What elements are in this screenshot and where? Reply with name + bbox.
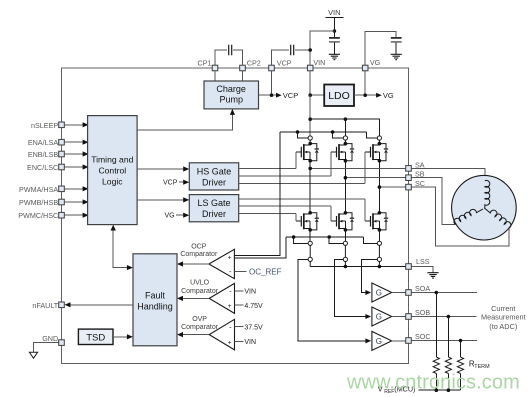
wire top rail (310, 119, 379, 136)
svg-text:PWMB/HSB: PWMB/HSB (19, 198, 58, 207)
terminal ENA/LSA (28, 138, 64, 147)
svg-text:VCP: VCP (283, 91, 298, 100)
node SB dot (344, 176, 348, 180)
arrow + label VCP (276, 91, 298, 100)
label VREF (MCU) (378, 384, 416, 395)
wire phase B vertical (344, 161, 346, 213)
wire ENA/LSA (64, 140, 88, 145)
svg-text:VG: VG (164, 213, 174, 220)
node dot on gate-bus B (331, 130, 335, 134)
wire VIN vertical into bridge (309, 95, 311, 136)
amplifier G1 (SOA) (365, 283, 405, 302)
wire VG cap to ground (395, 43, 397, 54)
wire HS gate A (239, 152, 296, 168)
wire LS gate B (239, 206, 331, 221)
terminal PWMC/HSC (18, 211, 64, 220)
capacitor VG (391, 38, 402, 42)
transistor LS-A (296, 211, 319, 232)
resistor RTERM C (457, 357, 463, 373)
wire VIN terminal to supply (310, 31, 334, 65)
node SC dot (378, 185, 382, 189)
amplifier G3 (SOC) (365, 331, 405, 350)
svg-text:PWMC/HSC: PWMC/HSC (18, 211, 58, 220)
svg-text:+: + (228, 255, 232, 262)
svg-text:4.75V: 4.75V (244, 303, 263, 310)
wire sense C to amp SOA (361, 259, 377, 292)
op-amp UVLO comparator (181, 280, 234, 314)
svg-text:Comparator: Comparator (180, 251, 218, 258)
wire TSD to fault (113, 334, 133, 339)
node dot VG (363, 93, 367, 97)
svg-text:SOA: SOA (415, 284, 430, 293)
svg-text:Fault: Fault (145, 291, 166, 301)
wire ENC/LSC (64, 164, 88, 169)
resistor RTERM B (445, 357, 451, 373)
wire SA (310, 167, 406, 169)
node dot sense-bus B (327, 235, 331, 239)
label VCP into HS driver (163, 180, 189, 187)
svg-text:(to ADC): (to ADC) (489, 322, 517, 331)
svg-text:Comparator: Comparator (181, 288, 219, 295)
node dot res B bottom (447, 388, 451, 392)
terminal SOB (406, 308, 431, 319)
svg-text:VCP: VCP (277, 59, 292, 68)
wire phase A vertical (309, 161, 311, 213)
svg-text:VIN: VIN (244, 288, 256, 295)
svg-text:VIN: VIN (244, 339, 256, 346)
svg-text:LSS: LSS (416, 257, 430, 266)
capacitor CP1-CP2 flying (229, 45, 232, 55)
svg-text:ENC/LSC: ENC/LSC (27, 163, 58, 172)
wire SC (379, 186, 405, 188)
capacitor VCP-VIN (291, 45, 294, 55)
svg-text:LDO: LDO (328, 90, 350, 102)
transistor HS-C (365, 142, 388, 163)
svg-text:VIN: VIN (313, 58, 325, 67)
svg-text:SOC: SOC (415, 332, 431, 341)
terminal nSLEEP (31, 121, 64, 130)
svg-text:VCP: VCP (163, 180, 178, 187)
wire VG terminal down (364, 71, 366, 95)
svg-text:VIN: VIN (328, 8, 340, 17)
svg-text:TSD: TSD (86, 332, 105, 343)
wire LSS to ground (411, 267, 433, 273)
pin circle HS B (343, 136, 347, 144)
wire UVLO 4.75V input (235, 303, 264, 310)
wire SC to motor (411, 187, 509, 246)
svg-text:nSLEEP: nSLEEP (31, 121, 58, 130)
pin circle LS B (343, 241, 347, 257)
node LSS dot B (344, 265, 348, 269)
svg-text:G: G (376, 337, 382, 346)
wire UVLO output to fault (177, 296, 209, 301)
terminal PWMA/HSA (19, 185, 64, 194)
svg-text:G: G (376, 288, 382, 297)
wire CP1 up (215, 50, 227, 65)
transistor HS-B (331, 142, 354, 163)
wire sense A to amp SOC (298, 259, 366, 341)
svg-text:OVP: OVP (192, 316, 207, 323)
wire VG terminal to VG cap (365, 31, 396, 65)
wire SOB out (411, 316, 476, 318)
capacitor VIN bulk (329, 38, 340, 42)
terminal ENC/LSC (27, 163, 64, 172)
svg-text:Logic: Logic (102, 177, 123, 187)
node SA dot (308, 167, 312, 171)
pin circle HS C (377, 136, 381, 144)
wire OVP output to fault (177, 332, 209, 337)
node LSS dot C (378, 265, 382, 269)
IC boundary box (62, 68, 409, 364)
svg-text:37.5V: 37.5V (244, 325, 263, 332)
node SOA dot (435, 291, 439, 295)
wire fault-timing bidirectional (111, 225, 133, 271)
terminal LSS (406, 257, 430, 269)
wire SOC out (411, 340, 477, 342)
block LS Gate Driver (189, 195, 238, 222)
terminal GND (42, 334, 64, 346)
wire resistor drop A (435, 293, 437, 358)
wire VIN terminal down to LDO (310, 71, 324, 95)
wire OCP output to fault (177, 261, 209, 266)
svg-text:OC_REF: OC_REF (249, 267, 282, 276)
block Timing and Control Logic (88, 116, 138, 225)
wire SB to motor (411, 178, 455, 225)
wire GND to ground triangle (34, 343, 59, 353)
wire gate-bus upper (280, 132, 377, 138)
wire OCP + input from gate-bus (234, 132, 280, 256)
wire phase C vertical (378, 161, 380, 213)
svg-text:ENB/LSB: ENB/LSB (28, 150, 59, 159)
svg-text:G: G (376, 312, 382, 321)
label RTERM (469, 360, 490, 371)
wire SB (345, 177, 405, 179)
wire nSLEEP (64, 122, 88, 127)
wire ENB/LSB (64, 151, 88, 156)
svg-text:TERM: TERM (474, 364, 490, 370)
svg-text:www.cntronics.com: www.cntronics.com (346, 372, 520, 394)
svg-text:LS Gate: LS Gate (197, 198, 230, 208)
terminal SC (406, 179, 425, 190)
svg-text:OCP: OCP (191, 244, 207, 251)
wire rail drop B (344, 119, 346, 136)
terminal SOC (406, 332, 431, 343)
wire VCP up (272, 50, 290, 65)
pin circle HS A (308, 136, 312, 144)
wire LSS bus (310, 266, 406, 268)
svg-text:Driver: Driver (202, 209, 226, 219)
svg-text:+: + (228, 339, 232, 346)
pin circle sense B (343, 257, 347, 266)
amplifier G2 (SOB) (365, 307, 405, 326)
terminal SA (406, 160, 425, 171)
terminal CP1 (198, 59, 218, 71)
VIN supply rail (325, 8, 343, 37)
wire OCP + input from sense-bus (234, 237, 286, 258)
block TSD (78, 329, 113, 344)
terminal CP2 (240, 59, 261, 71)
ground (VG cap) (391, 54, 402, 59)
block Charge Pump (204, 81, 259, 109)
svg-text:HS Gate: HS Gate (197, 166, 232, 176)
winding right (484, 204, 512, 228)
wire PWMB/HSB (64, 199, 88, 204)
svg-text:CP2: CP2 (247, 59, 261, 68)
wire PWMA/HSA (64, 186, 88, 191)
terminal VG (362, 58, 380, 71)
svg-text:Driver: Driver (202, 177, 226, 187)
wire nFAULT output (65, 302, 134, 307)
winding top (485, 180, 490, 208)
pin circle sense C (377, 257, 381, 266)
svg-text:Handling: Handling (137, 301, 173, 311)
node dot res A bottom (435, 388, 439, 392)
terminal ENB/LSB (28, 150, 64, 159)
wire CP1 into charge pump (214, 71, 216, 81)
svg-text:CP1: CP1 (198, 59, 212, 68)
node rail dot B (344, 117, 348, 121)
node dot LDO in (308, 93, 312, 97)
ground (LSS) (427, 273, 438, 278)
arrow + label VG (376, 91, 394, 100)
label VG into LS driver (164, 213, 189, 220)
wire resistor drop B (447, 317, 449, 358)
svg-text:GND: GND (42, 334, 58, 343)
ground GND open triangle (29, 352, 37, 358)
wire PWMC/HSC (64, 213, 88, 218)
terminal VIN (307, 58, 325, 71)
pin circle LS A (308, 241, 312, 257)
ground (VIN cap) (329, 54, 340, 59)
wire charge pump output to VCP (259, 94, 277, 96)
wire cap to ground (333, 43, 335, 54)
wire VCP terminal down (271, 71, 273, 95)
block Fault Handling (133, 254, 177, 346)
wire cap to VIN line (295, 49, 310, 51)
node SOB dot (447, 315, 451, 319)
wire resistor bottoms to VREF (419, 374, 461, 391)
wire HS gate B (239, 152, 331, 176)
svg-text:nFAULT: nFAULT (32, 301, 58, 310)
pin circle sense A (308, 257, 312, 266)
wire LS gate A (239, 214, 296, 222)
wire timing to charge pump (137, 109, 235, 130)
node VIN junction dot (333, 29, 337, 33)
svg-text:VG: VG (383, 91, 394, 100)
transistor LS-B (331, 211, 354, 232)
terminal PWMB/HSB (19, 198, 64, 207)
wire HS gate C (239, 152, 365, 183)
svg-text:Control: Control (98, 166, 126, 176)
wire OVP VIN input (235, 339, 257, 346)
node SOC dot (459, 339, 463, 343)
terminal SB (406, 170, 425, 181)
wire OC_REF input (234, 267, 281, 276)
wire SOA out (411, 292, 477, 294)
wire resistor drop C (460, 341, 462, 358)
wire LS source verticals (310, 230, 379, 241)
winding left (453, 205, 483, 225)
svg-text:PWMA/HSA: PWMA/HSA (19, 185, 58, 194)
wire timing to HS driver (137, 166, 189, 171)
terminal nFAULT (32, 301, 64, 310)
transistor LS-C (365, 211, 388, 232)
terminal VCP (269, 59, 292, 71)
svg-text:ENA/LSA: ENA/LSA (28, 138, 59, 147)
wire timing to LS driver (137, 197, 189, 202)
svg-text:Comparator: Comparator (181, 324, 219, 331)
svg-text:Measurement: Measurement (481, 313, 526, 322)
op-amp OCP comparator (180, 244, 234, 279)
wire OVP 37.5V input (235, 325, 264, 332)
node rail dot A (308, 117, 312, 121)
wire LS gate C (239, 199, 365, 221)
wire SA to motor (411, 168, 485, 180)
op-amp OVP comparator (181, 316, 234, 350)
svg-text:Timing and: Timing and (91, 155, 133, 165)
node dot on VIN line (308, 48, 312, 52)
node dot sense-bus A (292, 235, 296, 239)
motor body (452, 175, 517, 240)
svg-text:VG: VG (370, 58, 381, 67)
svg-text:SOB: SOB (415, 308, 430, 317)
svg-text:Charge: Charge (216, 84, 246, 94)
wire LDO output (354, 94, 377, 96)
pin circle LS C (377, 241, 381, 257)
wire sense B to amp SOB (334, 259, 365, 316)
resistor RTERM A (433, 357, 439, 373)
block LDO (324, 85, 354, 107)
label Current Measurement (481, 304, 526, 331)
svg-text:UVLO: UVLO (190, 280, 210, 287)
svg-text:+: + (228, 303, 232, 310)
wire cap to CP2 (233, 50, 242, 65)
wire sense-bus lower (286, 237, 377, 243)
wire CP2 into charge pump (242, 71, 244, 81)
block HS Gate Driver (189, 163, 238, 190)
terminal SOA (406, 284, 431, 295)
wire UVLO VIN input (235, 288, 257, 295)
svg-text:Pump: Pump (219, 95, 243, 105)
node dot on gate-bus A (296, 130, 300, 134)
node dot VCP (270, 93, 274, 97)
transistor HS-A (296, 142, 319, 163)
